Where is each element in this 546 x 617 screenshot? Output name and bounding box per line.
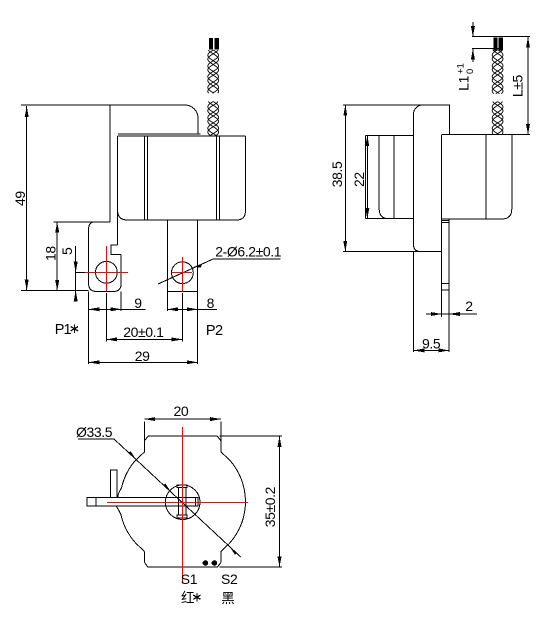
- boss bottom: [148, 566, 217, 568]
- left foot: [95, 221, 110, 223]
- side wires tips: [494, 38, 497, 50]
- right arc: [230, 460, 246, 543]
- 49 dim: [21, 104, 110, 106]
- BOTTOM red center lines: [107, 427, 248, 583]
- svg-text:18: 18: [42, 246, 58, 261]
- svg-text:22: 22: [351, 172, 367, 187]
- hub: [165, 485, 200, 520]
- svg-text:8: 8: [207, 295, 215, 311]
- svg-text:20±0.1: 20±0.1: [123, 324, 164, 340]
- svg-text:20: 20: [174, 403, 189, 419]
- dots: [203, 561, 208, 566]
- svg-text:L±5: L±5: [509, 74, 525, 97]
- SIDE VIEW: [343, 22, 530, 352]
- svg-text:9.5: 9.5: [422, 335, 441, 351]
- 18 dim: [54, 221, 96, 223]
- 9 dim line: [89, 308, 146, 310]
- svg-text:P1: P1: [55, 322, 72, 338]
- svg-text:2: 2: [465, 298, 473, 314]
- FRONT red center lines: [85, 246, 192, 292]
- arm vertical: [110, 470, 117, 498]
- leg: [448, 219, 450, 352]
- svg-text:黑: 黑: [221, 591, 235, 606]
- bottom ext lines: [88, 292, 90, 365]
- leader O33.5: [78, 439, 241, 557]
- 20+-0.1 dim line: [106, 338, 182, 340]
- svg-text:L1: L1: [456, 75, 472, 90]
- svg-text:红: 红: [181, 591, 195, 606]
- FRONT texts: [12, 191, 282, 365]
- 8 dim line: [167, 308, 217, 310]
- svg-text:38.5: 38.5: [329, 161, 345, 187]
- FRONT wires: [208, 50, 503, 136]
- 5 dim: [75, 246, 77, 300]
- asterisk after hong: [193, 593, 200, 601]
- 29 dim line: [89, 361, 198, 363]
- BOTTOM texts: [76, 403, 278, 587]
- arm bar: [87, 498, 96, 507]
- plate: [343, 104, 421, 106]
- svg-text:2-Ø6.2±0.1: 2-Ø6.2±0.1: [215, 243, 282, 259]
- body: [118, 135, 246, 137]
- cover: [110, 105, 198, 134]
- leader 2-O6.2: [158, 259, 281, 284]
- FRONT dimensions: [21, 105, 281, 364]
- dims: [145, 418, 221, 420]
- BOTTOM VIEW: [78, 419, 282, 567]
- svg-text:P2: P2: [206, 323, 223, 339]
- outline boss top: [148, 435, 217, 437]
- arrows front: [25, 106, 29, 117]
- left body: [365, 135, 413, 137]
- svg-text:49: 49: [12, 191, 28, 206]
- svg-text:Ø33.5: Ø33.5: [76, 424, 113, 440]
- svg-text:9: 9: [134, 295, 142, 311]
- right hole: [172, 262, 194, 284]
- right body: [442, 134, 530, 136]
- svg-text:S2: S2: [221, 571, 238, 587]
- right foot: [167, 220, 197, 291]
- svg-text:S1: S1: [181, 571, 198, 587]
- plate tip jog: [111, 245, 121, 254]
- left arcs with arm notch: [118, 460, 136, 498]
- asterisk after P1: [71, 324, 78, 333]
- svg-text:29: 29: [135, 348, 150, 364]
- svg-text:0: 0: [465, 69, 476, 74]
- svg-text:35±0.2: 35±0.2: [262, 486, 278, 527]
- left hole: [96, 261, 118, 283]
- svg-text:5: 5: [59, 247, 75, 255]
- dims: [344, 105, 346, 252]
